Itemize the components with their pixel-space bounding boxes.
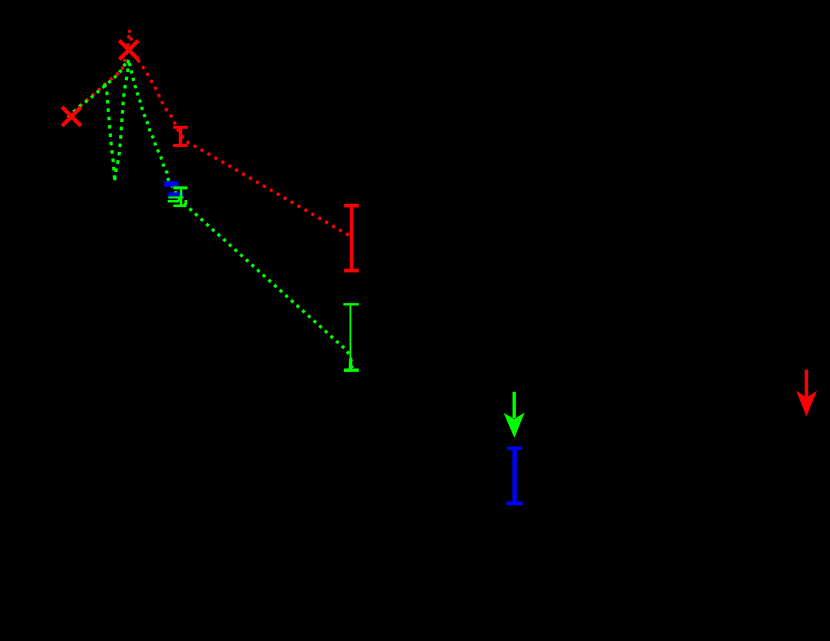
blue horizontal bar lower bbox=[168, 192, 183, 196]
green steep branch right (dotted) bbox=[115, 60, 129, 183]
blue horizontal bar upper bbox=[164, 181, 178, 187]
green steep branch left (dotted) bbox=[105, 84, 115, 183]
red X marker lower-left bbox=[62, 107, 81, 126]
green upper-limit arrow bbox=[504, 392, 525, 438]
green error bar mid-plot bbox=[343, 304, 359, 370]
green cluster: error bar with caps and horizontal bars bbox=[168, 186, 188, 207]
red X marker at peak bbox=[119, 41, 138, 60]
blue error bar lower bbox=[506, 448, 522, 503]
green decay curve (dotted) bbox=[129, 63, 352, 368]
red error bar large bbox=[344, 206, 359, 271]
red model curve (dotted) bbox=[69, 30, 351, 237]
green model rise (dotted) bbox=[68, 60, 128, 118]
red error bar small bbox=[173, 127, 188, 147]
red upper-limit arrow far right bbox=[796, 370, 817, 417]
green curve end stub at error bar bbox=[349, 361, 352, 369]
